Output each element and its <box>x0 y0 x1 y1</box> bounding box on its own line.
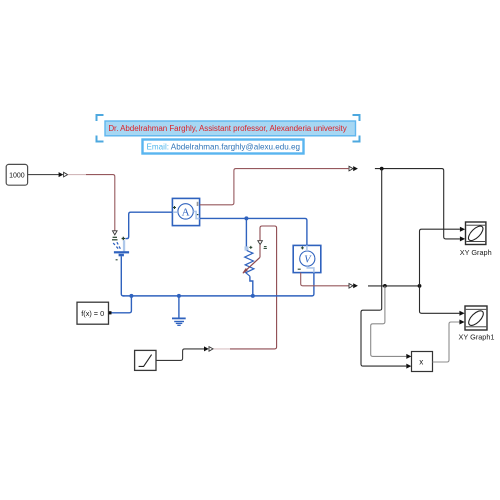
svg-text:x: x <box>419 358 423 367</box>
svg-text:A: A <box>182 206 190 218</box>
svg-text:XY Graph: XY Graph <box>460 248 492 257</box>
svg-text:XY Graph1: XY Graph1 <box>459 332 495 341</box>
svg-text:Dr. Abdelrahman Farghly, Assis: Dr. Abdelrahman Farghly, Assistant profe… <box>108 124 346 133</box>
svg-text:Email: Abdelrahman.farghly@ale: Email: Abdelrahman.farghly@alexu.edu.eg <box>147 143 301 152</box>
svg-text:f(x) = 0: f(x) = 0 <box>81 309 104 318</box>
svg-text:1000: 1000 <box>9 173 25 180</box>
